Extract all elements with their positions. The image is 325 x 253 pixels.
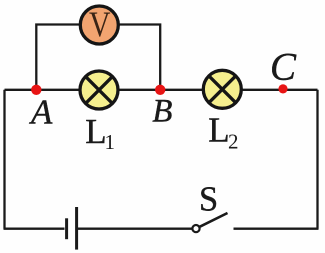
node C bbox=[278, 84, 287, 93]
wire voltmeter branch bbox=[36, 25, 160, 90]
lamp L2 bbox=[203, 70, 241, 108]
svg-text:S: S bbox=[199, 180, 218, 218]
svg-text:1: 1 bbox=[105, 130, 116, 154]
svg-text:C: C bbox=[270, 46, 297, 89]
node A bbox=[31, 85, 41, 95]
svg-text:2: 2 bbox=[228, 130, 239, 154]
node B bbox=[155, 85, 165, 95]
lamp L1 bbox=[80, 71, 118, 109]
svg-text:V: V bbox=[89, 4, 111, 44]
voltmeter V bbox=[80, 4, 118, 44]
wire main loop bbox=[5, 90, 318, 229]
svg-text:L: L bbox=[85, 112, 106, 151]
wire switch to right corner bbox=[234, 228, 319, 230]
switch S bbox=[192, 180, 227, 232]
svg-text:A: A bbox=[29, 92, 53, 131]
svg-text:B: B bbox=[152, 93, 172, 129]
battery bbox=[67, 207, 77, 250]
svg-text:L: L bbox=[208, 111, 229, 150]
wire bottom left to battery bbox=[4, 228, 65, 230]
wire battery to switch bbox=[78, 228, 192, 230]
